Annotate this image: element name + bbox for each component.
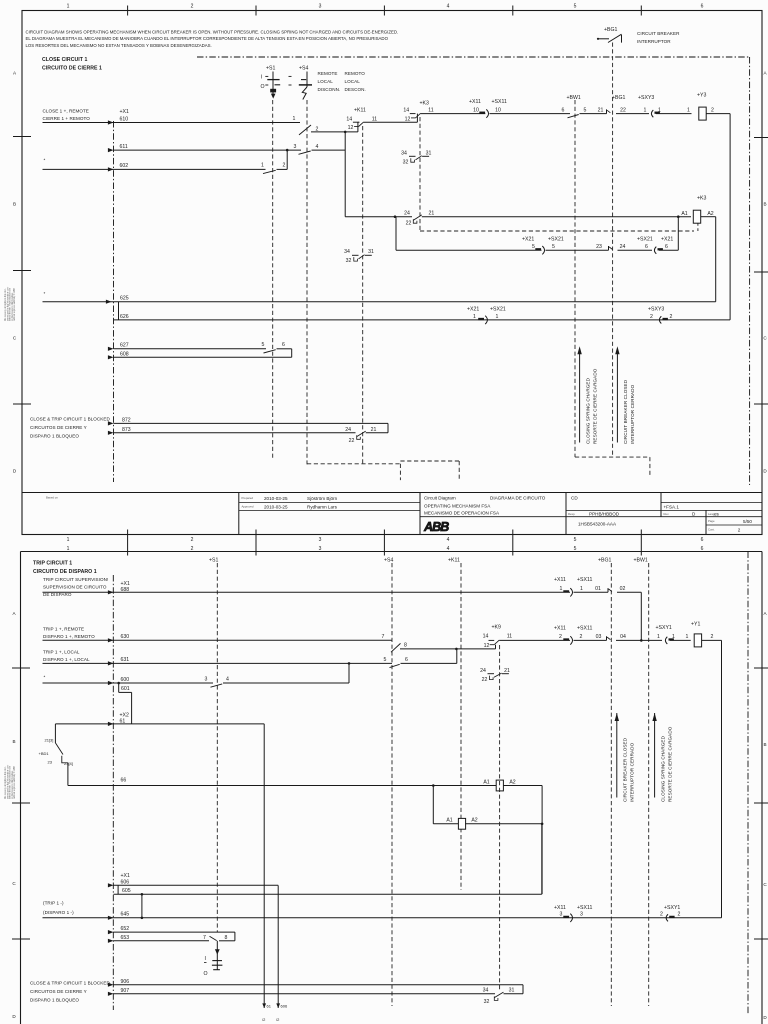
svg-text:CIRCUIT BREAKER: CIRCUIT BREAKER xyxy=(637,31,680,36)
svg-text:+BG1: +BG1 xyxy=(612,95,626,101)
svg-text:610: 610 xyxy=(120,117,129,123)
contact +S4 1-2 on wire 610 xyxy=(299,125,311,135)
svg-text:INTERRUPTOR: INTERRUPTOR xyxy=(637,39,671,44)
svg-text:907: 907 xyxy=(121,988,130,994)
wire 873 xyxy=(114,432,356,434)
dashed relay box bottom under +K3 xyxy=(420,230,694,232)
wire +K9 coil to right drop xyxy=(503,785,542,787)
page 1 row ticks left xyxy=(13,136,31,138)
svg-text:24: 24 xyxy=(480,668,486,674)
vertical jog from node to +K9 contact xyxy=(495,645,497,649)
svg-text:+K11: +K11 xyxy=(354,108,366,114)
contact +K11 24-21 (22) on wire 873 xyxy=(357,435,361,439)
page 1 row ticks right xyxy=(754,137,768,139)
dashed line +BW1 vertical page 2 xyxy=(648,563,650,1006)
svg-text:*: * xyxy=(44,291,46,296)
wire 602 xyxy=(43,168,266,170)
svg-text:A1: A1 xyxy=(681,211,687,217)
svg-text:22: 22 xyxy=(620,107,626,113)
svg-text:+S1: +S1 xyxy=(266,66,275,72)
svg-text:+X21: +X21 xyxy=(467,306,479,312)
svg-text:8: 8 xyxy=(404,643,407,649)
vertical up to +K3 coil wire xyxy=(677,217,679,251)
svg-text:TRIP CIRCUIT 1: TRIP CIRCUIT 1 xyxy=(33,561,72,567)
svg-text:*: * xyxy=(44,158,46,163)
svg-text:CLOSE 1 +, REMOTE: CLOSE 1 +, REMOTE xyxy=(43,109,89,114)
svg-text:LOCAL: LOCAL xyxy=(345,79,361,84)
svg-text:I: I xyxy=(261,75,262,81)
svg-text:23[4]: 23[4] xyxy=(64,761,73,766)
svg-text:5: 5 xyxy=(584,107,587,113)
vertical 605 to coil return xyxy=(541,824,543,895)
svg-text:1HSB543200-AAA: 1HSB543200-AAA xyxy=(578,522,617,527)
svg-text:23: 23 xyxy=(596,244,602,250)
svg-text:7: 7 xyxy=(203,935,206,941)
wire +Y3 output to right drop xyxy=(706,113,730,115)
svg-text:601: 601 xyxy=(121,686,130,692)
svg-text:Approved: Approved xyxy=(242,504,254,508)
wire 653 xyxy=(114,940,210,942)
svg-text:627: 627 xyxy=(120,343,129,349)
svg-text:+SX21: +SX21 xyxy=(490,306,506,312)
svg-text:2: 2 xyxy=(660,912,663,918)
svg-text:RESORTE DE CIERRE CARGADO: RESORTE DE CIERRE CARGADO xyxy=(592,368,597,444)
svg-text:MECANISMO DE OPERACION FSA: MECANISMO DE OPERACION FSA xyxy=(424,511,500,516)
dashed line +BG1 vertical page 2 xyxy=(610,563,612,1006)
svg-text:5: 5 xyxy=(574,537,577,543)
svg-text:PPHB/HBBOD: PPHB/HBBOD xyxy=(589,512,620,517)
wire 610 contact output xyxy=(311,131,358,133)
svg-text:+SX11: +SX11 xyxy=(577,905,592,911)
svg-text:+X11: +X11 xyxy=(469,99,481,105)
svg-text:606: 606 xyxy=(281,1004,288,1009)
svg-text:22: 22 xyxy=(406,220,412,226)
svg-text:A2: A2 xyxy=(471,818,477,824)
title block outer lines xyxy=(22,492,762,494)
svg-text:LOS RESORTES DEL MECANISMO NO: LOS RESORTES DEL MECANISMO NO ESTAN TENS… xyxy=(26,43,212,48)
wire 630 xyxy=(43,639,393,641)
arrow CIRCUIT BREAKER CLOSED page 1 xyxy=(616,350,618,443)
contact +S1 7-8 on wire 653 xyxy=(210,936,217,940)
svg-text:2: 2 xyxy=(283,163,286,169)
svg-text:+FSA.1: +FSA.1 xyxy=(664,505,680,510)
svg-text:602: 602 xyxy=(120,163,129,169)
svg-text:+S1: +S1 xyxy=(209,558,218,564)
wire 601 stub xyxy=(118,683,120,692)
svg-text:11: 11 xyxy=(507,634,512,640)
svg-text:6: 6 xyxy=(282,342,285,348)
wire 606 xyxy=(114,884,279,886)
svg-text:Rydhamn Lars: Rydhamn Lars xyxy=(307,504,338,509)
svg-text:+X11: +X11 xyxy=(554,626,566,632)
page 2 border right xyxy=(761,552,763,1024)
svg-text:906: 906 xyxy=(121,979,130,985)
svg-text:606: 606 xyxy=(121,879,130,885)
svg-text:CLOSE & TRIP CIRCUIT 1 BLOCKED: CLOSE & TRIP CIRCUIT 1 BLOCKED xyxy=(30,417,111,422)
svg-text:5/50: 5/50 xyxy=(743,519,752,524)
svg-text:1: 1 xyxy=(473,314,476,320)
svg-text:+SXY1: +SXY1 xyxy=(656,625,672,631)
svg-text:+S4: +S4 xyxy=(299,66,308,72)
svg-text:O: O xyxy=(204,971,208,977)
arrow CIRCUIT BREAKER CLOSED page 2 xyxy=(616,713,618,798)
svg-text:TRIP CIRCUIT SUPERVISION!: TRIP CIRCUIT SUPERVISION! xyxy=(43,577,108,582)
wire 610 xyxy=(43,122,301,124)
svg-text:1: 1 xyxy=(67,4,70,10)
contact +S1 5-6 on wire 627 xyxy=(264,350,276,353)
dashed line +K3 vertical xyxy=(419,117,421,231)
svg-text:66: 66 xyxy=(121,778,127,784)
svg-text:+SX21: +SX21 xyxy=(548,237,564,243)
svg-text:+K3: +K3 xyxy=(697,196,706,202)
svg-text:A1: A1 xyxy=(483,779,489,785)
svg-text:01: 01 xyxy=(595,586,601,592)
dash-dot boundary right vertical xyxy=(749,57,751,485)
svg-text:608: 608 xyxy=(120,351,129,357)
svg-text:1: 1 xyxy=(496,314,499,320)
svg-text:5: 5 xyxy=(552,244,555,250)
manual switch +S1 actuator symbol xyxy=(216,941,218,970)
svg-text:B: B xyxy=(13,202,16,207)
svg-text:1: 1 xyxy=(687,107,690,113)
svg-text:22: 22 xyxy=(349,438,355,444)
svg-text:OPERATING MECHANISM FSA: OPERATING MECHANISM FSA xyxy=(424,504,491,509)
svg-text:DISCONN.: DISCONN. xyxy=(318,87,341,92)
wire +K3 coil A2 to right drop xyxy=(701,216,716,218)
svg-text:(DISPARO 1 -): (DISPARO 1 -) xyxy=(43,910,74,915)
svg-text:3: 3 xyxy=(580,912,583,918)
svg-text:TRIP 1 +, REMOTE: TRIP 1 +, REMOTE xyxy=(43,627,84,632)
svg-text:+SXY3: +SXY3 xyxy=(648,306,664,312)
svg-text:CLOSE & TRIP CIRCUIT 1 BLOCKED: CLOSE & TRIP CIRCUIT 1 BLOCKED xyxy=(30,981,111,986)
svg-text:1: 1 xyxy=(67,537,70,543)
svg-text:2: 2 xyxy=(670,314,673,320)
svg-text:23: 23 xyxy=(48,760,53,765)
svg-text:600: 600 xyxy=(121,677,130,683)
link 652 to 653 xyxy=(234,932,236,941)
svg-text:es: es xyxy=(714,512,720,517)
svg-text:+K11: +K11 xyxy=(448,558,460,564)
svg-text:+SX21: +SX21 xyxy=(637,237,653,243)
page 1 border frame xyxy=(22,11,762,535)
svg-text:+SXY3: +SXY3 xyxy=(638,95,654,101)
svg-text:DISPARO 1 BLOQUEO: DISPARO 1 BLOQUEO xyxy=(30,998,79,1003)
vertical from node down to X21 wire xyxy=(395,217,397,251)
svg-text:61: 61 xyxy=(267,1004,272,1009)
svg-text:6: 6 xyxy=(701,4,704,10)
dashed line +K11 vertical page 1 xyxy=(362,126,364,464)
svg-text:Page: Page xyxy=(708,519,715,523)
svg-text:1: 1 xyxy=(644,107,647,113)
svg-text:1: 1 xyxy=(293,116,296,122)
wire 600 xyxy=(43,682,214,684)
dashed line +BG1 vertical page 1 xyxy=(612,43,614,458)
svg-text:INTERRUPTOR CERRADO: INTERRUPTOR CERRADO xyxy=(629,742,634,802)
wire +K11 11 output xyxy=(364,121,418,123)
svg-text:21: 21 xyxy=(598,107,604,113)
wire 907 xyxy=(114,993,496,995)
svg-text:5: 5 xyxy=(262,342,265,348)
svg-text:02: 02 xyxy=(620,586,626,592)
svg-text:2: 2 xyxy=(650,314,653,320)
contact +S4 3-4 on wire 611 xyxy=(299,151,311,154)
svg-text:12: 12 xyxy=(405,116,411,122)
svg-text:without express authority © A: without express authority © ABB xyxy=(13,288,16,321)
wire +K11 coil row xyxy=(433,823,459,825)
dashed line +BW1 vertical page 1 xyxy=(574,100,576,457)
page 2 dash-dot boundary right xyxy=(747,552,749,1016)
wire to +K11 contact xyxy=(358,121,360,123)
svg-text:22: 22 xyxy=(482,677,488,683)
link 605 to 645 xyxy=(141,894,143,918)
svg-text:24: 24 xyxy=(345,427,351,433)
svg-text:DIAGRAMA DE CIRCUITO: DIAGRAMA DE CIRCUITO xyxy=(490,496,546,501)
wire 872 xyxy=(114,422,389,424)
svg-text:+X1: +X1 xyxy=(120,109,129,115)
svg-text:3: 3 xyxy=(205,677,208,683)
vertical 02 drop to trip wire xyxy=(640,592,642,640)
svg-text:+X21: +X21 xyxy=(661,237,673,243)
svg-text:CIRCUITO DE CIERRE 1: CIRCUITO DE CIERRE 1 xyxy=(42,66,102,72)
svg-text:+K9: +K9 xyxy=(492,625,501,631)
link 627 to 608 xyxy=(291,349,293,358)
svg-text:11: 11 xyxy=(372,116,377,122)
svg-text:1: 1 xyxy=(657,634,660,640)
svg-text:DISPARO 1 BLOQUEO: DISPARO 1 BLOQUEO xyxy=(30,434,79,439)
svg-text:A2: A2 xyxy=(707,211,713,217)
page 2 row ticks left xyxy=(12,667,30,669)
svg-text:2: 2 xyxy=(580,634,583,640)
svg-text:+X21: +X21 xyxy=(522,237,534,243)
svg-text:INTERRUPTOR CERRADO: INTERRUPTOR CERRADO xyxy=(630,384,635,444)
svg-text:CIRCUIT DIAGRAM SHOWS OPERATIN: CIRCUIT DIAGRAM SHOWS OPERATING MECHANIS… xyxy=(26,30,399,35)
dashed line +K11 vertical page 2 xyxy=(460,563,462,890)
svg-text:2: 2 xyxy=(711,107,714,113)
svg-text:(TRIP 1 -): (TRIP 1 -) xyxy=(43,901,64,906)
svg-text:24: 24 xyxy=(404,211,410,217)
svg-text:RESORTE DE CIERRE CARGADO: RESORTE DE CIERRE CARGADO xyxy=(668,726,673,802)
svg-text:2: 2 xyxy=(559,634,562,640)
svg-text:34: 34 xyxy=(344,249,350,255)
svg-text:32: 32 xyxy=(403,159,409,165)
arrow CLOSING SPRING CHARGED page 1 xyxy=(579,350,581,443)
svg-text:+SX11: +SX11 xyxy=(577,577,592,583)
svg-text:B: B xyxy=(763,202,766,207)
svg-text:+BG1: +BG1 xyxy=(598,558,612,564)
contact +S4 5-6 on wire 631 xyxy=(390,664,400,667)
svg-text:10: 10 xyxy=(473,107,479,113)
svg-text:Sjöström Björn: Sjöström Björn xyxy=(307,496,338,501)
svg-text:31: 31 xyxy=(368,249,374,255)
svg-text:1: 1 xyxy=(580,586,583,592)
svg-text:2010-03-25: 2010-03-25 xyxy=(264,496,288,501)
svg-text:605: 605 xyxy=(122,888,131,894)
svg-text:3: 3 xyxy=(294,144,297,150)
wire 21 output to +K3 coil xyxy=(422,216,691,218)
svg-text:+SX11: +SX11 xyxy=(577,626,592,632)
page 1/2 boundary ticks xyxy=(127,530,129,556)
link 606 to 605 xyxy=(117,885,119,894)
svg-text:21: 21 xyxy=(429,211,435,217)
svg-text:3: 3 xyxy=(319,4,322,10)
svg-text:7: 7 xyxy=(382,634,385,640)
dashed line +S4 vertical page 1 xyxy=(306,100,308,464)
wire 652 xyxy=(114,931,235,933)
arrow CLOSING SPRING CHARGED page 2 xyxy=(654,713,656,798)
svg-text:5: 5 xyxy=(384,657,387,663)
svg-text:3: 3 xyxy=(319,537,322,543)
trip wire to +Y1 xyxy=(499,639,570,641)
page 2 border left xyxy=(20,552,22,1024)
svg-text:+X11: +X11 xyxy=(554,905,566,911)
svg-text:2: 2 xyxy=(191,537,194,543)
wire 631 xyxy=(43,662,393,664)
wire 626 xyxy=(114,319,730,321)
svg-text:630: 630 xyxy=(121,634,130,640)
svg-text:+K3: +K3 xyxy=(420,101,429,107)
wire 611 output to node xyxy=(312,149,346,151)
svg-text:Circuit Diagram: Circuit Diagram xyxy=(424,496,456,501)
vertical drop +K3 coil to wire 625 xyxy=(715,217,717,302)
node vertical close circuit xyxy=(344,132,346,217)
wire 608 xyxy=(114,356,292,358)
svg-text:6: 6 xyxy=(645,244,648,250)
svg-text:3: 3 xyxy=(560,912,563,918)
wire 906 xyxy=(114,984,524,986)
dashed line +S4 vertical page 2 xyxy=(391,563,393,1006)
svg-text:Resp.: Resp. xyxy=(568,512,576,516)
svg-text:*: * xyxy=(44,675,46,680)
dashed line +S1 vertical page 1 xyxy=(272,100,274,459)
svg-text:+BW1: +BW1 xyxy=(567,95,581,101)
svg-text:Prepared: Prepared xyxy=(242,496,254,500)
svg-text:I: I xyxy=(205,956,206,962)
svg-text:631: 631 xyxy=(121,657,130,663)
svg-text:+SXY1: +SXY1 xyxy=(664,905,680,911)
svg-text:6: 6 xyxy=(405,657,408,663)
svg-text:+Y3: +Y3 xyxy=(697,93,706,99)
svg-text:34: 34 xyxy=(401,151,407,157)
vertical jog to +K3 contact xyxy=(416,114,418,123)
vertical 606 drop to bottom terminal xyxy=(277,885,279,1008)
svg-text:21[3]: 21[3] xyxy=(45,738,54,743)
svg-text:10: 10 xyxy=(495,107,501,113)
svg-text:4: 4 xyxy=(447,4,450,10)
svg-text:CLOSING SPRING CHARGED: CLOSING SPRING CHARGED xyxy=(585,377,590,444)
svg-text:2: 2 xyxy=(711,634,714,640)
svg-text:32: 32 xyxy=(484,999,490,1005)
svg-text:1: 1 xyxy=(686,634,689,640)
wire 600 output xyxy=(223,682,349,684)
svg-text:EL DIAGRAMA MUESTRA EL MECANIS: EL DIAGRAMA MUESTRA EL MECANISMO DE MANI… xyxy=(26,36,389,41)
svg-text:611: 611 xyxy=(120,144,128,150)
wire 61 drop to bottom terminal xyxy=(263,724,265,1008)
svg-text:A1: A1 xyxy=(446,818,452,824)
vertical drop +Y1 to wire 645 xyxy=(721,640,723,917)
svg-text:+SX11: +SX11 xyxy=(492,99,507,105)
svg-text:A2: A2 xyxy=(509,779,515,785)
wire 625 xyxy=(43,301,716,303)
svg-text:1: 1 xyxy=(672,634,675,640)
svg-text:SUPERVISION DE CIRCUITO: SUPERVISION DE CIRCUITO xyxy=(43,585,107,590)
svg-text:2: 2 xyxy=(738,528,741,533)
page 2 dash-dot terminal rail +X1 xyxy=(112,575,114,1010)
svg-text:14: 14 xyxy=(403,108,409,114)
svg-text:CLOSING SPRING CHARGED: CLOSING SPRING CHARGED xyxy=(661,735,666,802)
svg-text:61: 61 xyxy=(120,718,126,724)
svg-text:CIRCUIT BREAKER CLOSED: CIRCUIT BREAKER CLOSED xyxy=(623,379,628,444)
dashed elbow below S4 page 1 xyxy=(307,463,400,465)
dashed elbow below BW1/BG1 page 1 xyxy=(575,456,650,458)
svg-text:626: 626 xyxy=(120,314,129,320)
svg-text:04: 04 xyxy=(620,634,626,640)
svg-text:ABB: ABB xyxy=(423,520,449,534)
vertical right drop to wire 605 xyxy=(541,786,543,895)
svg-text:4: 4 xyxy=(316,144,319,150)
svg-text:DESCON.: DESCON. xyxy=(345,87,366,92)
svg-text:Cont.: Cont. xyxy=(708,527,715,531)
svg-text:21: 21 xyxy=(371,427,377,433)
svg-text:625: 625 xyxy=(120,296,129,302)
svg-text:21: 21 xyxy=(504,668,510,674)
svg-text:CLOSE CIRCUIT 1: CLOSE CIRCUIT 1 xyxy=(42,57,87,63)
svg-text:12: 12 xyxy=(348,125,354,131)
svg-text:DISPARO 1 +, LOCAL: DISPARO 1 +, LOCAL xyxy=(43,657,90,662)
svg-text:CIRCUITO DE DISPARO 1: CIRCUITO DE DISPARO 1 xyxy=(33,569,97,575)
svg-text:1: 1 xyxy=(658,107,661,113)
svg-text:6: 6 xyxy=(665,244,668,250)
svg-text:Rev.: Rev. xyxy=(664,512,670,516)
svg-text:34: 34 xyxy=(483,988,489,994)
svg-text:CIRCUITOS DE CIERRE Y: CIRCUITOS DE CIERRE Y xyxy=(30,989,87,994)
vertical +BD1 to wire 66 xyxy=(67,763,69,786)
svg-text:+BD1: +BD1 xyxy=(39,751,50,756)
svg-text:11: 11 xyxy=(428,108,433,114)
svg-text:2010-03-25: 2010-03-25 xyxy=(264,504,288,509)
dash-dot terminal rail +X1 page 1 xyxy=(113,121,115,482)
wire 605 xyxy=(114,893,542,895)
svg-text:873: 873 xyxy=(122,427,131,433)
vertical to density switch +BD1 xyxy=(54,724,56,743)
svg-text:Based on: Based on xyxy=(46,496,58,500)
svg-text:2: 2 xyxy=(678,912,681,918)
node vertical to +K11 contact xyxy=(357,122,359,132)
svg-text:03: 03 xyxy=(596,634,602,640)
svg-text:LOCAL: LOCAL xyxy=(318,79,334,84)
svg-text:REMOTE: REMOTE xyxy=(318,71,338,76)
svg-text:32: 32 xyxy=(346,258,352,264)
wire X21/SX21 row xyxy=(396,249,542,251)
svg-text:5: 5 xyxy=(574,4,577,10)
svg-text:TRIP 1 +, LOCAL: TRIP 1 +, LOCAL xyxy=(43,650,80,655)
svg-text:B: B xyxy=(763,742,766,747)
contact +S1 1-2 on wire 602 xyxy=(263,170,276,173)
dash-dot boundary top horizontal +FSA.1 xyxy=(197,56,750,58)
wire 645 xyxy=(43,917,722,919)
svg-text:+Y1: +Y1 xyxy=(691,622,700,628)
wire 66 xyxy=(68,785,497,787)
contact +K9 34-31 (32) on wire 907 xyxy=(494,996,498,1000)
svg-text:31: 31 xyxy=(426,151,432,157)
contact +S4 7-8 on wire 630 xyxy=(391,643,401,652)
svg-text:+BW1: +BW1 xyxy=(634,558,648,564)
svg-text:+BG1: +BG1 xyxy=(604,27,618,33)
svg-text:DISPARO 1 +, REMOTO: DISPARO 1 +, REMOTO xyxy=(43,634,95,639)
wire 688 xyxy=(43,591,571,593)
svg-text:O: O xyxy=(261,84,265,90)
svg-text:652: 652 xyxy=(121,926,130,932)
page 2 border top xyxy=(21,551,763,553)
